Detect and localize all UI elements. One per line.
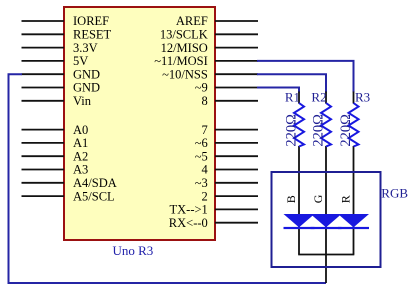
svg-text:TX-->1: TX-->1: [170, 203, 208, 217]
svg-text:A2: A2: [73, 149, 88, 163]
svg-text:R3: R3: [355, 90, 370, 105]
svg-text:A0: A0: [73, 123, 88, 137]
svg-text:~5: ~5: [195, 149, 208, 163]
svg-text:8: 8: [202, 94, 208, 108]
svg-text:IOREF: IOREF: [73, 14, 109, 28]
svg-text:~11/MOSI: ~11/MOSI: [154, 54, 208, 68]
svg-text:B: B: [284, 195, 298, 203]
svg-text:220Ω: 220Ω: [284, 114, 300, 147]
svg-text:GND: GND: [73, 81, 100, 95]
svg-text:A1: A1: [73, 136, 88, 150]
svg-text:3.3V: 3.3V: [73, 41, 98, 55]
svg-text:~9: ~9: [195, 81, 208, 95]
svg-text:Vin: Vin: [73, 94, 92, 108]
svg-text:4: 4: [202, 163, 209, 177]
svg-text:R: R: [339, 195, 353, 203]
svg-text:~6: ~6: [195, 136, 208, 150]
svg-text:G: G: [311, 194, 325, 203]
svg-text:A4/SDA: A4/SDA: [73, 176, 117, 190]
svg-text:2: 2: [202, 189, 208, 203]
svg-text:AREF: AREF: [176, 14, 208, 28]
svg-text:220Ω: 220Ω: [311, 114, 327, 147]
svg-text:R2: R2: [311, 90, 326, 105]
svg-text:12/MISO: 12/MISO: [161, 41, 208, 55]
svg-text:RX<--0: RX<--0: [169, 216, 208, 230]
svg-text:A5/SCL: A5/SCL: [73, 189, 115, 203]
svg-text:~3: ~3: [195, 176, 208, 190]
svg-text:7: 7: [202, 123, 208, 137]
svg-text:RESET: RESET: [73, 28, 112, 42]
svg-text:A3: A3: [73, 163, 88, 177]
svg-text:GND: GND: [73, 67, 100, 81]
svg-text:5V: 5V: [73, 54, 88, 68]
svg-text:13/SCLK: 13/SCLK: [160, 28, 208, 42]
svg-text:R1: R1: [285, 90, 300, 105]
svg-text:Uno R3: Uno R3: [113, 243, 154, 258]
svg-text:~10/NSS: ~10/NSS: [162, 67, 208, 81]
svg-text:RGB: RGB: [381, 186, 408, 201]
svg-text:220Ω: 220Ω: [338, 114, 354, 147]
